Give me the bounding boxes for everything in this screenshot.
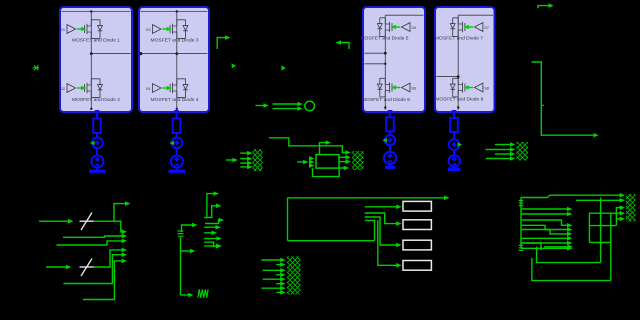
wire: right cluster r8 <box>521 242 568 244</box>
wire: stub left of U3 <box>341 43 349 50</box>
wire: U4 internal top rail <box>458 14 493 16</box>
wire: center subsystem input stub 1 <box>308 157 311 159</box>
transistor Q7 MOSFET with diode (upper, U4, mirrored) <box>450 18 465 37</box>
wire: display loop left vertical <box>287 198 289 241</box>
wire: W7 <box>83 261 122 300</box>
wire: gate arrow S8 (green) <box>468 87 473 89</box>
display D1 <box>403 201 431 211</box>
wire: B1 top port up-right arrow <box>320 143 327 155</box>
wire: right cluster r2 <box>521 208 568 210</box>
wire: bottom-center bus line 6 <box>276 283 281 285</box>
svg-text:MOSFET and Diode 3: MOSFET and Diode 3 <box>150 38 198 44</box>
current sensor I3 <box>385 135 395 145</box>
wire: right cluster r1 top into hatch <box>521 195 620 197</box>
wire: right cluster r5 <box>521 225 568 229</box>
wire: W3 <box>63 236 122 237</box>
node: bus expand squiggle (right bottom) <box>519 245 523 250</box>
DC source V3 <box>384 152 396 164</box>
node: U3 junction dots <box>384 52 387 109</box>
wire: U4 internal divider <box>437 76 459 78</box>
wire: top-right stub arrow <box>538 6 549 9</box>
wire: bottom-center bus line 4 <box>276 274 281 276</box>
transistor Q5 MOSFET with diode (upper, U3, mirrored) <box>377 18 392 37</box>
display D4 <box>403 261 431 271</box>
wire: feed display D2 <box>365 213 397 224</box>
wire: W5 into slash 2 <box>46 266 67 268</box>
wire: U4-side line 4 <box>486 158 510 160</box>
wire: U1 internal vertical bus <box>90 12 92 111</box>
buffer S5 input triangle <box>402 23 411 32</box>
wire: staircase p6 <box>204 242 216 246</box>
wire: U2 output down <box>176 113 178 170</box>
wire: U2 internal top rail <box>141 11 208 13</box>
ground G3 <box>389 163 392 167</box>
wire: B1 right pin row 3 <box>339 161 346 163</box>
wire: bottom-center bus line 1 <box>262 259 281 261</box>
wire: feed display D3 <box>365 217 397 245</box>
wire: display loop riser <box>365 220 375 240</box>
buffer S4 input triangle <box>153 84 162 93</box>
wire: staircase p3 <box>205 220 219 224</box>
buffer S2 input triangle <box>67 84 76 93</box>
svg-text:MOSFET and Diode 8: MOSFET and Diode 8 <box>435 97 483 103</box>
buffer S6 input triangle <box>402 83 411 92</box>
current sensor I4 <box>449 139 460 150</box>
svg-text:S4: S4 <box>146 86 152 91</box>
svg-text:S2: S2 <box>60 86 65 91</box>
wire: I1 output tick (green) <box>90 141 95 146</box>
wire: staircase p1 <box>204 206 216 218</box>
wire: U3 internal top rail <box>385 14 423 16</box>
wire: right vertical v1 <box>600 198 602 263</box>
wire: display loop top long arrow <box>288 197 445 199</box>
block: mid-left hatch tag <box>253 149 263 171</box>
transistor Q6 MOSFET with diode (lower, U3, mirrored) <box>377 78 392 97</box>
wire: U4-side line 1 <box>495 144 510 146</box>
wire: gate arrow S7 (green) <box>468 26 473 28</box>
wire: staircase p7 <box>204 232 212 234</box>
DC source V2 <box>171 156 183 168</box>
subsystem U2 "MOSFET and Diode 3/4" box <box>139 7 209 112</box>
wire: branch to selector lower <box>181 250 191 252</box>
node: tick on L-route <box>541 104 544 106</box>
wire: right vertical v2 <box>610 213 612 280</box>
node: U2 junction dots <box>139 10 178 110</box>
wire: bottom-center bus line 7 <box>262 287 281 289</box>
wire: W4 <box>57 241 123 245</box>
wire: center subsystem input stub 3 <box>308 165 311 167</box>
display D2 <box>403 220 431 230</box>
wire: center subsystem input stub 2 <box>308 161 311 163</box>
wire: hatch feed row 5 <box>616 218 620 220</box>
resistor R2 <box>173 119 181 134</box>
wire: display loop bottom <box>288 240 375 242</box>
block: sawtooth signal generator <box>198 289 208 298</box>
transistor Q3 MOSFET with diode (upper, U2) <box>170 20 188 39</box>
wire: U4 output down <box>453 113 455 168</box>
wire: long feed from upper-left into hatch row 1 <box>269 138 346 153</box>
port nub under U4 <box>452 110 457 113</box>
port nub under U2 <box>174 110 179 113</box>
wire: stub right of U2 <box>217 38 225 49</box>
wire: right cluster left bus <box>520 198 522 249</box>
wire: gate arrow S5 (green) <box>395 26 400 28</box>
wire: gate arrow S2 (green) <box>77 87 82 89</box>
svg-text:S3: S3 <box>146 27 151 32</box>
wire: extra arrow pair <box>544 246 568 248</box>
wire: branch to selector upper <box>182 225 193 232</box>
wire: long L-route top-right <box>532 62 594 135</box>
current sensor I1 <box>92 137 103 148</box>
wire: feed display D4 <box>378 220 397 265</box>
wire: I4 output tick (green) <box>458 142 463 147</box>
svg-text:S7: S7 <box>484 25 489 30</box>
wire: mid-left bus line 3 <box>240 162 248 164</box>
transistor Q4 MOSFET with diode (lower, U2) <box>170 79 188 98</box>
wire: staircase p4 <box>204 226 216 228</box>
wire: feed display D1 <box>365 206 397 208</box>
wire: feed into center subsystem <box>297 161 304 163</box>
wire: scope feed lower <box>273 108 298 110</box>
wire: right cluster r6 <box>521 230 568 234</box>
node: bus expand squiggle (right top) <box>519 201 523 206</box>
wire: U2 internal vertical bus <box>176 12 178 111</box>
wire: U1 internal divider <box>91 53 130 55</box>
current sensor I2 <box>172 137 183 148</box>
wire: W1 into bottom-left mux <box>39 220 69 222</box>
wire: U3 internal divider b <box>365 63 386 65</box>
wire: mid-left bus line 4 <box>240 166 248 168</box>
svg-text:S1: S1 <box>60 27 65 32</box>
wire: scope feed upper <box>273 103 298 105</box>
wire: bottom-center bus line 5 <box>263 278 281 280</box>
wire: bottom-center bus line 2 <box>276 264 281 266</box>
node: U4 junction dots <box>457 75 460 109</box>
svg-text:MOSFET and Diode 1: MOSFET and Diode 1 <box>72 38 120 44</box>
ground G1 <box>89 170 106 173</box>
DC source V4 <box>449 155 460 166</box>
wire: right cluster r9 <box>521 247 568 249</box>
svg-text:MOSFET and Diode 6: MOSFET and Diode 6 <box>362 97 410 103</box>
wire: branch to sawtooth block <box>181 294 189 296</box>
wire: staircase p5 <box>204 238 217 240</box>
node: tiny arrow A <box>232 63 237 68</box>
svg-text:MOSFET and Diode 7: MOSFET and Diode 7 <box>435 36 483 42</box>
display D3 <box>403 240 431 250</box>
block: bottom-center hatch tag <box>287 257 301 295</box>
wire: gate arrow S6 (green) <box>395 87 400 89</box>
buffer S8 input triangle <box>474 83 483 92</box>
wire: B1 bottom feedback loop into hatch row 4 <box>313 168 345 177</box>
wire: U3 output down <box>389 113 391 165</box>
wire: hatch feed row 3 <box>616 208 620 226</box>
wire: loop 2 <box>532 258 611 281</box>
transistor Q1 MOSFET with diode (upper, U1) <box>85 20 103 39</box>
wire: mid-left bus line 1 <box>240 152 248 154</box>
wire: cross link h6 <box>589 225 616 227</box>
buffer S7 input triangle <box>474 23 483 32</box>
port nub under U1 <box>95 110 100 113</box>
wire: gate arrow S1 (green) <box>77 28 82 30</box>
block: center subsystem B1 <box>316 155 339 169</box>
transistor Q8 MOSFET with diode (lower, U4, mirrored) <box>450 78 465 97</box>
wire: U1 output down <box>96 113 98 170</box>
wire: B1 right pin row 2 <box>339 156 346 158</box>
block: hatch tag right of U4 <box>517 142 529 161</box>
wire: staircase p2 <box>207 194 214 217</box>
wire: right cluster r7 <box>521 237 568 239</box>
node: U1 junction dots <box>90 10 93 110</box>
subsystem U1 "MOSFET and Diode 1/2" box <box>60 7 132 112</box>
signal conversion slash 1 <box>81 213 92 231</box>
wire: U2 internal divider <box>141 53 208 55</box>
block: mid-right hatch tag <box>352 151 363 170</box>
svg-text:MOSFET and Diode 5: MOSFET and Diode 5 <box>360 36 408 42</box>
buffer S1 input triangle <box>67 25 76 34</box>
svg-text:S6: S6 <box>411 85 416 90</box>
wire: left vertical feed bus <box>180 237 182 295</box>
resistor R3 <box>386 117 394 131</box>
svg-text:MOSFET and Diode 2: MOSFET and Diode 2 <box>72 97 120 103</box>
transistor Q2 MOSFET with diode (lower, U1) <box>85 79 103 98</box>
wire: mid-left bus line 2 <box>240 158 248 160</box>
svg-text:MOSFET and Diode 4: MOSFET and Diode 4 <box>150 97 198 103</box>
wire: U1 internal top rail <box>62 11 131 13</box>
buffer S3 input triangle <box>153 25 162 34</box>
wire: W5 continuation <box>94 250 123 267</box>
wire: U3 internal vertical bus <box>384 15 386 110</box>
svg-text:S8: S8 <box>484 85 489 90</box>
DC source V1 <box>91 156 103 168</box>
wire: hatch feed row 2 <box>576 199 620 201</box>
wire: gate arrow S3 (green) <box>162 28 167 30</box>
scope SC1 (circle block) <box>305 101 315 111</box>
wire: gate arrow S4 (green) <box>162 87 167 89</box>
wire: bottom-center bus line 3 <box>263 269 281 271</box>
signal conversion slash 2 <box>81 259 92 277</box>
node: bus expand squiggle (left) <box>178 231 184 236</box>
node: stray tag (top-left asterisk) <box>33 65 40 70</box>
resistor R1 <box>93 119 101 134</box>
wire: W6 <box>64 255 123 284</box>
wire: stub from squiggle <box>522 243 542 250</box>
ground G2 <box>169 170 186 173</box>
wire: bottom-center bus line 8 <box>276 291 281 293</box>
block: bottom-right hatch tag <box>626 194 636 222</box>
wire: U4-side line 2 <box>486 149 511 151</box>
wire: I2 output tick (green) <box>170 141 175 146</box>
wire: loop 1 <box>537 247 601 263</box>
wire: W1 continuation to top arrow <box>94 204 126 222</box>
wire: W2 branch down <box>114 221 122 232</box>
wire: U3 internal divider a <box>365 52 386 54</box>
subsystem U4 "MOSFET and Diode 7/8" box <box>435 7 495 112</box>
wire: hatch feed row 4 <box>589 213 620 242</box>
wire: U4-side line 3 <box>495 153 510 155</box>
subsystem U3 "MOSFET and Diode 5/6" box <box>363 7 425 112</box>
svg-text:S5: S5 <box>411 25 416 30</box>
wire: staircase p8 <box>204 245 217 247</box>
port nub under U3 <box>388 110 393 113</box>
resistor R4 <box>450 118 458 132</box>
ground G4 <box>448 167 461 171</box>
node: tiny arrow B <box>281 65 286 70</box>
wire: cross link h7 <box>589 242 610 244</box>
wire: U4 internal vertical bus <box>457 15 459 110</box>
wire: right cluster r3 <box>521 213 568 215</box>
wire: single arrow into mid-left mux <box>226 159 233 161</box>
wire: I3 output tick (green) <box>382 138 387 143</box>
wire: right cluster r4 <box>521 220 568 225</box>
wire: scope input stub <box>256 105 264 107</box>
